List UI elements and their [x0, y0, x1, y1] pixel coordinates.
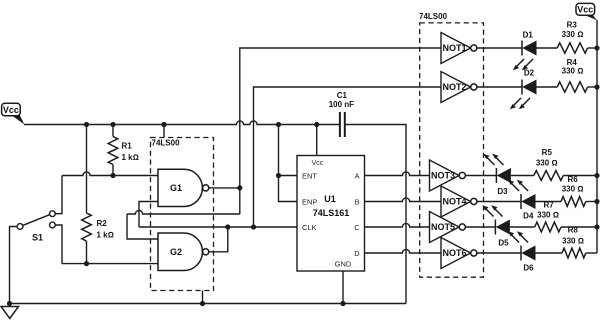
wire R6 to Vcc rail [586, 201, 597, 203]
wire R7 to Vcc rail [561, 226, 597, 228]
resistor R4 [557, 58, 587, 92]
svg-text:330 Ω: 330 Ω [562, 185, 584, 194]
junction ENT on pullup vertical [276, 173, 281, 178]
resistor R2 [82, 125, 114, 264]
wire C1 right to corner and down to ground rail [346, 125, 406, 304]
wire switch pole to ground rail [10, 227, 18, 304]
junction U1 GND on ground rail [340, 301, 345, 306]
wire D1 to R3 [537, 47, 558, 49]
junction U1 Vcc on rail [314, 122, 319, 127]
LED D5 [482, 205, 510, 247]
svg-text:NOT2: NOT2 [443, 82, 467, 92]
node Vcc (left callout) [2, 103, 25, 124]
svg-text:74LS00: 74LS00 [152, 139, 181, 148]
junction R2 top on Vcc rail [84, 122, 89, 127]
wire NOT1 net vertical and to NOT1 input [240, 48, 441, 188]
IC U1 74LS161 [297, 156, 365, 272]
svg-text:R4: R4 [567, 58, 578, 67]
IC box 74LS00 (NOT1-NOT6) [419, 12, 484, 277]
inverter NOT5 [430, 212, 466, 243]
wire NOT1 out to D1 [477, 47, 522, 49]
resistor R6 [561, 175, 586, 207]
svg-text:D3: D3 [497, 187, 508, 196]
svg-text:R6: R6 [567, 175, 578, 184]
LED D6 [508, 231, 536, 272]
svg-text:1 kΩ: 1 kΩ [97, 231, 114, 240]
wire ENT pin [279, 175, 298, 177]
wire R3 to Vcc rail [588, 47, 597, 49]
junction R2 bottom on G2 input net [84, 261, 89, 266]
svg-text:Vcc: Vcc [312, 160, 324, 167]
svg-text:330 Ω: 330 Ω [562, 67, 584, 76]
wire Vcc rail (with crossover humps) [24, 121, 339, 125]
svg-text:NOT4: NOT4 [443, 196, 467, 206]
svg-text:R8: R8 [568, 226, 579, 235]
inverter NOT2 [441, 72, 477, 103]
wire line A down to G2 input [127, 214, 158, 239]
ground [1, 304, 19, 319]
svg-text:1 kΩ: 1 kΩ [122, 153, 139, 162]
LED D3 [483, 154, 511, 196]
svg-text:D4: D4 [523, 212, 534, 221]
svg-text:330 Ω: 330 Ω [537, 210, 559, 219]
wire R8 to Vcc rail corner [586, 252, 597, 254]
wire ground rail [10, 303, 407, 305]
resistor R8 [562, 226, 586, 258]
wire right Vcc rail vertical [596, 20, 598, 253]
svg-text:D2: D2 [524, 69, 535, 78]
svg-text:NOT5: NOT5 [431, 222, 455, 232]
wire NOT3 out to D3 [465, 175, 496, 177]
wire D5 to R7 [510, 226, 535, 228]
svg-text:U1: U1 [324, 194, 336, 204]
inverter NOT4 [441, 186, 477, 217]
svg-text:ENT: ENT [302, 171, 317, 180]
wire output D to NOT6 [365, 249, 442, 253]
wire G1 out feedback down (line A) [239, 188, 241, 214]
junction R1 bottom on G1 input net [110, 173, 115, 178]
LED D1 [513, 30, 537, 70]
svg-text:330 Ω: 330 Ω [562, 30, 584, 39]
IC box 74LS00 (G1,G2) [151, 138, 214, 291]
svg-text:R2: R2 [97, 219, 108, 228]
wire G2 output up to CLK net [209, 227, 228, 252]
junction NOT2 vertical on CLK net [251, 224, 256, 229]
svg-text:A: A [355, 171, 360, 180]
wire switch upper contact to G1 input net [55, 176, 62, 214]
wire output B to NOT4 [365, 198, 442, 202]
svg-text:R1: R1 [122, 141, 133, 150]
svg-text:330 Ω: 330 Ω [562, 237, 584, 246]
svg-text:R5: R5 [542, 148, 553, 157]
svg-text:D: D [354, 249, 360, 258]
wire output A to NOT3 (hump over gnd vertical) [365, 172, 430, 176]
inverter NOT1 [441, 33, 477, 64]
nand gate G2 [158, 233, 209, 271]
wire NOT5 out to D5 [465, 226, 495, 228]
resistor R3 [557, 21, 587, 54]
junction GND stub on ground rail [200, 301, 205, 306]
node Vcc (right callout) [576, 3, 597, 20]
svg-text:CLK: CLK [302, 223, 317, 232]
svg-text:74LS161: 74LS161 [313, 208, 350, 218]
wire CLK net horizontal [139, 226, 297, 228]
wire 74LS00 Vcc stub [163, 125, 165, 138]
junction Vcc stub on rail [161, 122, 166, 127]
junction ground rail / switch pole [7, 301, 12, 306]
inverter NOT3 [430, 160, 466, 191]
svg-text:100 nF: 100 nF [329, 100, 354, 109]
junction R1 top on Vcc rail [110, 122, 115, 127]
wire D3 to R5 [511, 175, 534, 177]
wire D6 to R8 [536, 252, 563, 254]
svg-text:NOT6: NOT6 [443, 248, 467, 258]
wire NOT2 out to D2 [477, 86, 522, 88]
svg-text:C1: C1 [337, 91, 348, 100]
wire NOT2 net vertical and to NOT2 input [254, 87, 442, 227]
svg-text:NOT1: NOT1 [443, 43, 467, 53]
wire G1 upper input net (hump over R2 vertical) [62, 172, 158, 176]
wire line A horizontal with hump over G1-in2 vertical [127, 210, 240, 214]
svg-text:G1: G1 [170, 183, 182, 193]
wire output C to NOT5 [365, 223, 430, 227]
resistor R1 [108, 125, 139, 176]
svg-text:S1: S1 [32, 233, 43, 243]
svg-text:ENP: ENP [302, 197, 317, 206]
wire NOT4 out to D4 [477, 201, 521, 203]
svg-text:Vcc: Vcc [3, 105, 19, 115]
resistor R5 [534, 148, 564, 181]
svg-text:D6: D6 [523, 263, 534, 272]
svg-text:G2: G2 [170, 247, 182, 257]
wire ENT/ENP pullup vertical [279, 125, 298, 202]
inverter NOT6 [441, 238, 477, 269]
wire R4 to Vcc rail [588, 86, 597, 88]
wire CLK net left end up to G1 lower input [139, 202, 158, 228]
wire switch lower contact to G2 input net [55, 225, 62, 264]
capacitor C1 [329, 91, 354, 137]
svg-text:B: B [355, 197, 360, 206]
svg-text:330 Ω: 330 Ω [536, 158, 558, 167]
junction pullup on rail [276, 122, 281, 127]
LED D2 [510, 69, 537, 110]
svg-text:R7: R7 [543, 201, 554, 210]
svg-text:R3: R3 [567, 21, 578, 30]
nand gate G1 [158, 169, 209, 206]
svg-text:D1: D1 [523, 30, 534, 39]
LED D4 [508, 180, 536, 221]
wire U1 Vcc stub [316, 125, 318, 156]
wire D2 to R4 [537, 86, 558, 88]
switch S1 [17, 211, 55, 243]
wire D4 to R6 [536, 201, 562, 203]
wire NOT6 out to D6 [477, 252, 521, 254]
wire R5 to Vcc rail [563, 175, 597, 177]
wire 74LS00 GND stub [202, 291, 204, 304]
wire G1 output to node and NOT1 vertical [209, 187, 240, 189]
wire G2 lower input net [62, 263, 158, 265]
svg-text:GND: GND [335, 260, 352, 269]
wire U1 GND stub [342, 271, 344, 304]
svg-text:D5: D5 [498, 239, 509, 248]
svg-text:74LS00: 74LS00 [419, 12, 448, 21]
svg-text:Vcc: Vcc [577, 5, 593, 15]
resistor R7 [535, 201, 561, 232]
svg-text:C: C [354, 223, 360, 232]
svg-text:NOT3: NOT3 [431, 170, 455, 180]
